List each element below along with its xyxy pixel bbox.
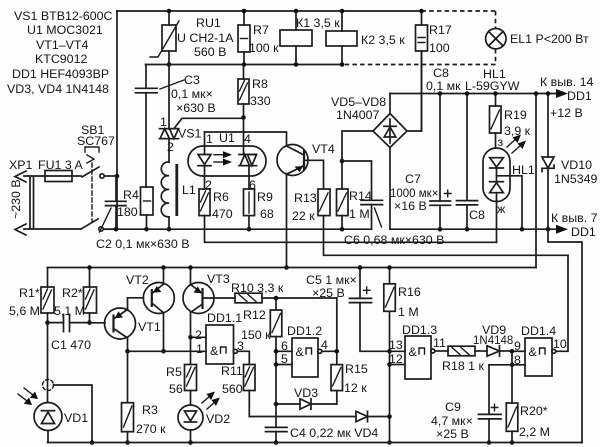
svg-text:U1 MOC3021: U1 MOC3021	[27, 23, 103, 37]
U1 LED	[198, 132, 211, 189]
node VT4 emitter rail	[284, 265, 289, 270]
node C2 rail	[114, 227, 119, 232]
node 12V feed	[534, 91, 539, 96]
svg-text:&: &	[409, 345, 418, 359]
resistor R7	[238, 11, 279, 65]
transistor VT2	[126, 273, 174, 314]
node VD10 top	[546, 91, 551, 96]
wire ground rail	[390, 228, 557, 230]
svg-text:1 М: 1 М	[398, 305, 419, 319]
arrow to DD1 pin7	[551, 211, 598, 239]
node C2 top	[115, 175, 117, 177]
node R2 C1 VT1 base	[87, 320, 92, 325]
svg-text:VT4: VT4	[312, 142, 335, 156]
svg-text:VT1–VT4: VT1–VT4	[36, 38, 88, 52]
resistor R10	[203, 281, 337, 303]
transistor VT4	[277, 142, 335, 268]
wire bridge minus to ground rail	[389, 148, 391, 230]
wire U1 pin1 loop to VT4 collector	[205, 132, 287, 146]
wire VD1 window tap	[54, 385, 93, 443]
svg-text:DD1: DD1	[571, 225, 596, 239]
svg-text:R10 3,3 к: R10 3,3 к	[231, 281, 284, 295]
svg-text:R20*: R20*	[520, 404, 548, 418]
resistor R5	[166, 365, 197, 406]
svg-text:С6 0,68 мк×630 В: С6 0,68 мк×630 В	[344, 233, 444, 247]
svg-text:R2*: R2*	[62, 286, 83, 300]
svg-text:R16: R16	[398, 285, 421, 299]
svg-text:11: 11	[433, 336, 446, 350]
node R19 top	[493, 91, 498, 96]
wire R13 to DD1.4 output line	[324, 216, 569, 256]
gate DD1.1	[195, 311, 244, 364]
node C5 rail	[358, 265, 363, 270]
node RU1 top	[167, 9, 172, 14]
wire VT1 emitter to VT2 base	[128, 298, 144, 310]
wire VT2 collector	[163, 313, 165, 352]
svg-text:DD1: DD1	[567, 89, 592, 103]
svg-text:56: 56	[169, 382, 183, 396]
svg-text:10: 10	[553, 337, 567, 351]
node R14 C6 junction	[340, 159, 345, 164]
wire lower section supply rail	[48, 267, 537, 269]
resistor R8	[238, 65, 271, 118]
svg-text:EL1 P<200 Вт: EL1 P<200 Вт	[510, 32, 589, 46]
node R4 rail	[144, 227, 149, 232]
svg-text:VD3: VD3	[294, 386, 318, 400]
svg-text:+12 В: +12 В	[550, 106, 583, 120]
node C8 bottom	[465, 227, 470, 232]
diode VD9	[473, 323, 513, 356]
node VT2 emitter rail	[161, 265, 166, 270]
svg-text:1N5349: 1N5349	[554, 172, 598, 186]
resistor R4	[117, 187, 153, 229]
node K2 top	[340, 9, 345, 14]
svg-text:1: 1	[160, 115, 167, 129]
optocoupler U1 body	[188, 131, 266, 192]
svg-text:VT1: VT1	[138, 320, 161, 334]
relay K1	[280, 11, 340, 65]
svg-text:0,1 мк×: 0,1 мк×	[171, 87, 213, 101]
relay K2	[326, 11, 405, 65]
svg-text:4: 4	[321, 338, 328, 352]
node VT3 collector pin2	[188, 335, 193, 340]
node VD10 bottom	[546, 227, 551, 232]
svg-text:22 к: 22 к	[292, 209, 315, 223]
node R16 column rail	[387, 440, 392, 445]
wire DD1.3 pin12	[390, 364, 406, 366]
node R16 C5 pin13	[387, 349, 392, 354]
node K1 top	[294, 9, 299, 14]
node VT1 collector	[125, 349, 130, 354]
svg-text:К2 3,5 к: К2 3,5 к	[361, 33, 405, 47]
svg-text:VT2: VT2	[126, 273, 149, 287]
svg-text:R12: R12	[243, 308, 266, 322]
svg-text:1N4007: 1N4007	[336, 108, 380, 122]
svg-text:&: &	[296, 345, 305, 359]
wire upper distribution	[146, 64, 343, 66]
svg-text:KTC9012: KTC9012	[35, 52, 87, 66]
svg-text:C3: C3	[184, 73, 200, 87]
node R2 top rail	[87, 265, 92, 270]
svg-text:R13: R13	[294, 191, 317, 205]
svg-text:560: 560	[222, 382, 243, 396]
triac VS1	[160, 65, 244, 163]
svg-text:R11: R11	[221, 364, 243, 378]
svg-text:DD1 HEF4093BP: DD1 HEF4093BP	[12, 67, 109, 81]
svg-text:R1*: R1*	[19, 286, 40, 300]
svg-text:4,7 мк×: 4,7 мк×	[431, 414, 473, 428]
svg-text:C9: C9	[445, 400, 461, 414]
svg-text:R6: R6	[213, 190, 229, 204]
resistor R3	[122, 351, 167, 442]
node R3 rail	[125, 440, 130, 445]
svg-text:C8: C8	[469, 208, 485, 222]
transistor VT1	[105, 308, 161, 339]
gate DD1.3	[389, 323, 446, 379]
svg-text:ж: ж	[497, 202, 506, 216]
LED HL1 emission arrows	[498, 135, 527, 154]
node pin8	[510, 363, 515, 368]
inductor L1	[161, 162, 196, 229]
resistor R9	[244, 189, 274, 221]
node C4 rail	[274, 440, 279, 445]
wire DD1.3 output	[435, 350, 448, 352]
resistor R6	[199, 189, 233, 221]
node VD2 rail	[188, 440, 193, 445]
svg-text:R4: R4	[123, 188, 139, 202]
svg-text:R18 1 к: R18 1 к	[442, 359, 485, 373]
wire mains neutral rail	[104, 228, 372, 230]
U1 photo-triac	[239, 118, 257, 190]
wire VT3 emitter	[190, 268, 192, 285]
capacitor C2	[96, 176, 190, 251]
svg-text:R3: R3	[142, 403, 158, 417]
svg-text:U CH2-1A: U CH2-1A	[177, 31, 234, 45]
node VS1 gate / R8 / U1 pin4	[241, 115, 246, 120]
U1 coupling arrows	[214, 151, 232, 165]
svg-text:×25 В: ×25 В	[436, 427, 469, 441]
switch SB1 pole 1	[77, 123, 117, 178]
resistor R13	[292, 189, 330, 223]
svg-text:2,2 М: 2,2 М	[519, 425, 550, 439]
wire R9 to rail	[248, 216, 250, 230]
node VD4 join	[387, 414, 392, 419]
resistor R14	[337, 161, 372, 229]
svg-text:1N4148: 1N4148	[473, 335, 513, 347]
node R16 rail	[387, 265, 392, 270]
svg-text:4: 4	[244, 132, 251, 146]
node pin6 R12	[274, 349, 279, 354]
varistor RU1	[150, 11, 234, 65]
node VT3 emitter rail	[188, 265, 193, 270]
wire ground loop to bottom rail	[548, 229, 582, 442]
capacitor C9	[431, 365, 501, 443]
capacitor C6	[342, 161, 444, 247]
wire top rail dashed to lamp	[422, 11, 496, 28]
gate DD1.2	[281, 324, 328, 377]
svg-text:8: 8	[514, 353, 521, 367]
svg-text:2: 2	[205, 178, 212, 192]
LED HL1 bicolor	[465, 67, 535, 216]
svg-text:×16 В: ×16 В	[394, 199, 427, 213]
svg-text:U1: U1	[219, 131, 235, 145]
svg-text:C5 1 мк×: C5 1 мк×	[306, 273, 357, 287]
parts list text block	[7, 9, 113, 96]
svg-text:470: 470	[212, 207, 233, 221]
resistor R2	[54, 268, 97, 323]
svg-text:VD5–VD8: VD5–VD8	[331, 95, 386, 109]
lamp EL1	[486, 29, 589, 49]
node R7 top	[242, 9, 247, 14]
svg-text:×630 В: ×630 В	[176, 101, 216, 115]
capacitor C4	[266, 426, 379, 443]
svg-text:К выв. 14: К выв. 14	[540, 75, 594, 89]
svg-text:C7: C7	[405, 172, 421, 186]
svg-text:HL1: HL1	[512, 163, 535, 177]
svg-text:330: 330	[250, 94, 271, 108]
svg-text:з: з	[498, 135, 504, 149]
node RU1 bottom	[167, 62, 172, 67]
svg-text:68: 68	[260, 207, 274, 221]
wire HL1 cathode tap	[497, 176, 523, 229]
LED VD2	[178, 392, 230, 443]
svg-text:270 к: 270 к	[136, 422, 166, 436]
node window tap rail	[90, 440, 95, 445]
node R7 bottom	[242, 62, 247, 67]
node R17 top	[419, 9, 424, 14]
svg-text:12 к: 12 к	[344, 381, 367, 395]
svg-text:C8: C8	[433, 66, 449, 80]
node VD3 C4	[274, 402, 279, 407]
wire R6 to HL1 yellow anode	[205, 216, 497, 243]
svg-text:560 В: 560 В	[194, 45, 226, 59]
svg-text:R8: R8	[252, 77, 268, 91]
node R10 R12	[274, 296, 279, 301]
svg-text:VT3: VT3	[207, 272, 230, 286]
wire DD1.1 pin1	[128, 350, 207, 352]
svg-text:1: 1	[196, 342, 203, 356]
svg-text:DD1.3: DD1.3	[402, 323, 437, 337]
svg-text:1: 1	[206, 132, 213, 146]
svg-text:R7: R7	[253, 23, 269, 37]
wire VT1 base	[90, 322, 106, 324]
svg-text:180: 180	[117, 205, 138, 219]
svg-text:C4 0,22 мк VD4: C4 0,22 мк VD4	[290, 426, 378, 440]
svg-text:&: &	[529, 345, 538, 359]
svg-text:VS1 BTB12-600C: VS1 BTB12-600C	[14, 9, 113, 23]
svg-text:VS1: VS1	[178, 127, 202, 141]
resistor R17	[416, 11, 452, 131]
svg-text:RU1: RU1	[196, 16, 221, 30]
node C9 rail	[487, 440, 492, 445]
node pin9	[510, 349, 515, 354]
wire DD1.4 output up	[556, 255, 568, 351]
switch SB1 pole 2	[81, 219, 117, 231]
wire VT2 emitter	[163, 268, 165, 285]
diode VD3	[276, 386, 337, 409]
node HL1 tap ground	[520, 227, 525, 232]
wire pin9 to pin8	[511, 351, 513, 365]
transistor VT3	[183, 272, 230, 314]
diode VD4	[249, 411, 389, 421]
svg-text:R19: R19	[504, 108, 527, 122]
svg-text:~230 В: ~230 В	[9, 179, 23, 219]
svg-text:R9: R9	[257, 190, 273, 204]
photodiode VD1 window	[43, 380, 54, 391]
wire bridge plus to 12V rail	[389, 94, 391, 114]
svg-text:SC767: SC767	[77, 134, 115, 148]
node R14 rail	[340, 227, 345, 232]
wire DD1.2 pin5	[276, 364, 292, 366]
svg-text:XP1: XP1	[9, 158, 33, 172]
gate DD1.4	[514, 324, 567, 376]
zener VD10	[542, 94, 598, 230]
svg-text:L1: L1	[182, 183, 196, 197]
fuse FU1	[45, 171, 81, 182]
arrow to DD1 pin14	[540, 75, 594, 120]
svg-text:2: 2	[195, 328, 202, 342]
svg-text:2: 2	[167, 140, 174, 154]
svg-text:100: 100	[429, 41, 450, 55]
wire mains left column	[116, 11, 118, 229]
wire DD1.2 pin6	[276, 350, 292, 352]
node C8 top	[465, 91, 470, 96]
wire bridge AC2 to R17	[407, 51, 422, 131]
svg-text:C1 470: C1 470	[51, 338, 91, 352]
node pin12	[387, 362, 392, 367]
wire dashed lamp bottom	[342, 49, 496, 65]
resistor R18	[442, 346, 487, 373]
node R20 rail	[510, 440, 515, 445]
photodiode VD1	[18, 388, 88, 443]
svg-text:5,6 М: 5,6 М	[9, 304, 40, 318]
wire R12 column down	[275, 365, 277, 428]
resistor R20	[506, 365, 550, 443]
wire bridge AC1 to R14 node	[342, 131, 373, 161]
wire HL1 bottom lead	[496, 193, 498, 243]
svg-text:К1 3,5 к: К1 3,5 к	[296, 16, 340, 30]
resistor R11	[221, 364, 255, 417]
resistor R12	[241, 298, 282, 365]
wire DD1.2 output	[322, 350, 337, 352]
svg-text:×25 В: ×25 В	[312, 286, 345, 300]
svg-text:VD10: VD10	[561, 158, 592, 172]
svg-text:VD2: VD2	[206, 412, 230, 426]
wire DD1.1 output to R11	[237, 351, 249, 364]
switch SB1 linkage	[85, 147, 99, 222]
svg-text:R15: R15	[345, 362, 368, 376]
connector XP1 arrows	[9, 158, 83, 235]
capacitor C1	[48, 315, 92, 353]
wire DD1.3 pin13	[390, 350, 406, 352]
node VT2 collector	[161, 349, 166, 354]
svg-text:9: 9	[514, 339, 521, 353]
node C7 top	[438, 91, 443, 96]
wire 12V rail	[390, 93, 557, 95]
svg-text:R5: R5	[166, 365, 182, 379]
svg-text:К выв. 7: К выв. 7	[551, 211, 598, 225]
svg-text:R17: R17	[429, 23, 452, 37]
wire VT3 collector	[190, 313, 192, 365]
svg-text:0,1 мк: 0,1 мк	[426, 79, 461, 93]
wire DD1.1 pin2	[191, 336, 207, 338]
svg-text:C2 0,1 мк×630 В: C2 0,1 мк×630 В	[96, 237, 190, 251]
node switch feed	[115, 174, 120, 179]
bridge rectifier VD5-VD8	[331, 95, 407, 148]
svg-text:DD1.4: DD1.4	[521, 324, 556, 338]
svg-text:1 М: 1 М	[349, 207, 370, 221]
svg-text:DD1.2: DD1.2	[287, 324, 322, 338]
svg-text:L-59GYW: L-59GYW	[465, 79, 520, 93]
node C7 bottom	[438, 227, 443, 232]
wire VT1 collector	[127, 338, 129, 351]
wire R10 corner down	[336, 298, 338, 365]
svg-text:150 к: 150 к	[241, 328, 271, 342]
resistor R19	[490, 94, 531, 149]
resistor R1	[9, 268, 54, 403]
node DD1.2 out R15	[335, 349, 340, 354]
capacitor C7	[390, 94, 451, 230]
wire DD1.4 pin8	[489, 364, 525, 366]
svg-text:DD1.1: DD1.1	[207, 311, 242, 325]
node K1 bottom	[294, 62, 299, 67]
svg-text:VD3, VD4 1N4148: VD3, VD4 1N4148	[7, 82, 109, 96]
capacitor C8	[426, 66, 485, 229]
wire bottom common rail	[48, 442, 583, 444]
wire 12V feed to lower section	[535, 94, 537, 268]
svg-text:100 к: 100 к	[249, 41, 279, 55]
resistor R16	[384, 268, 421, 443]
wire DD1.4 pin9	[512, 350, 525, 352]
resistor R15	[331, 362, 368, 404]
capacitor C5	[306, 268, 390, 352]
wire top rail	[117, 10, 422, 12]
node L1 rail	[167, 227, 172, 232]
node U1 return rail	[247, 227, 252, 232]
svg-text:&: &	[210, 344, 219, 358]
capacitor C3	[136, 65, 216, 188]
svg-text:VD1: VD1	[64, 411, 88, 425]
node pin5	[274, 362, 279, 367]
svg-text:13: 13	[389, 338, 403, 352]
node R1 C1	[45, 320, 50, 325]
node K2 bottom	[340, 62, 345, 67]
